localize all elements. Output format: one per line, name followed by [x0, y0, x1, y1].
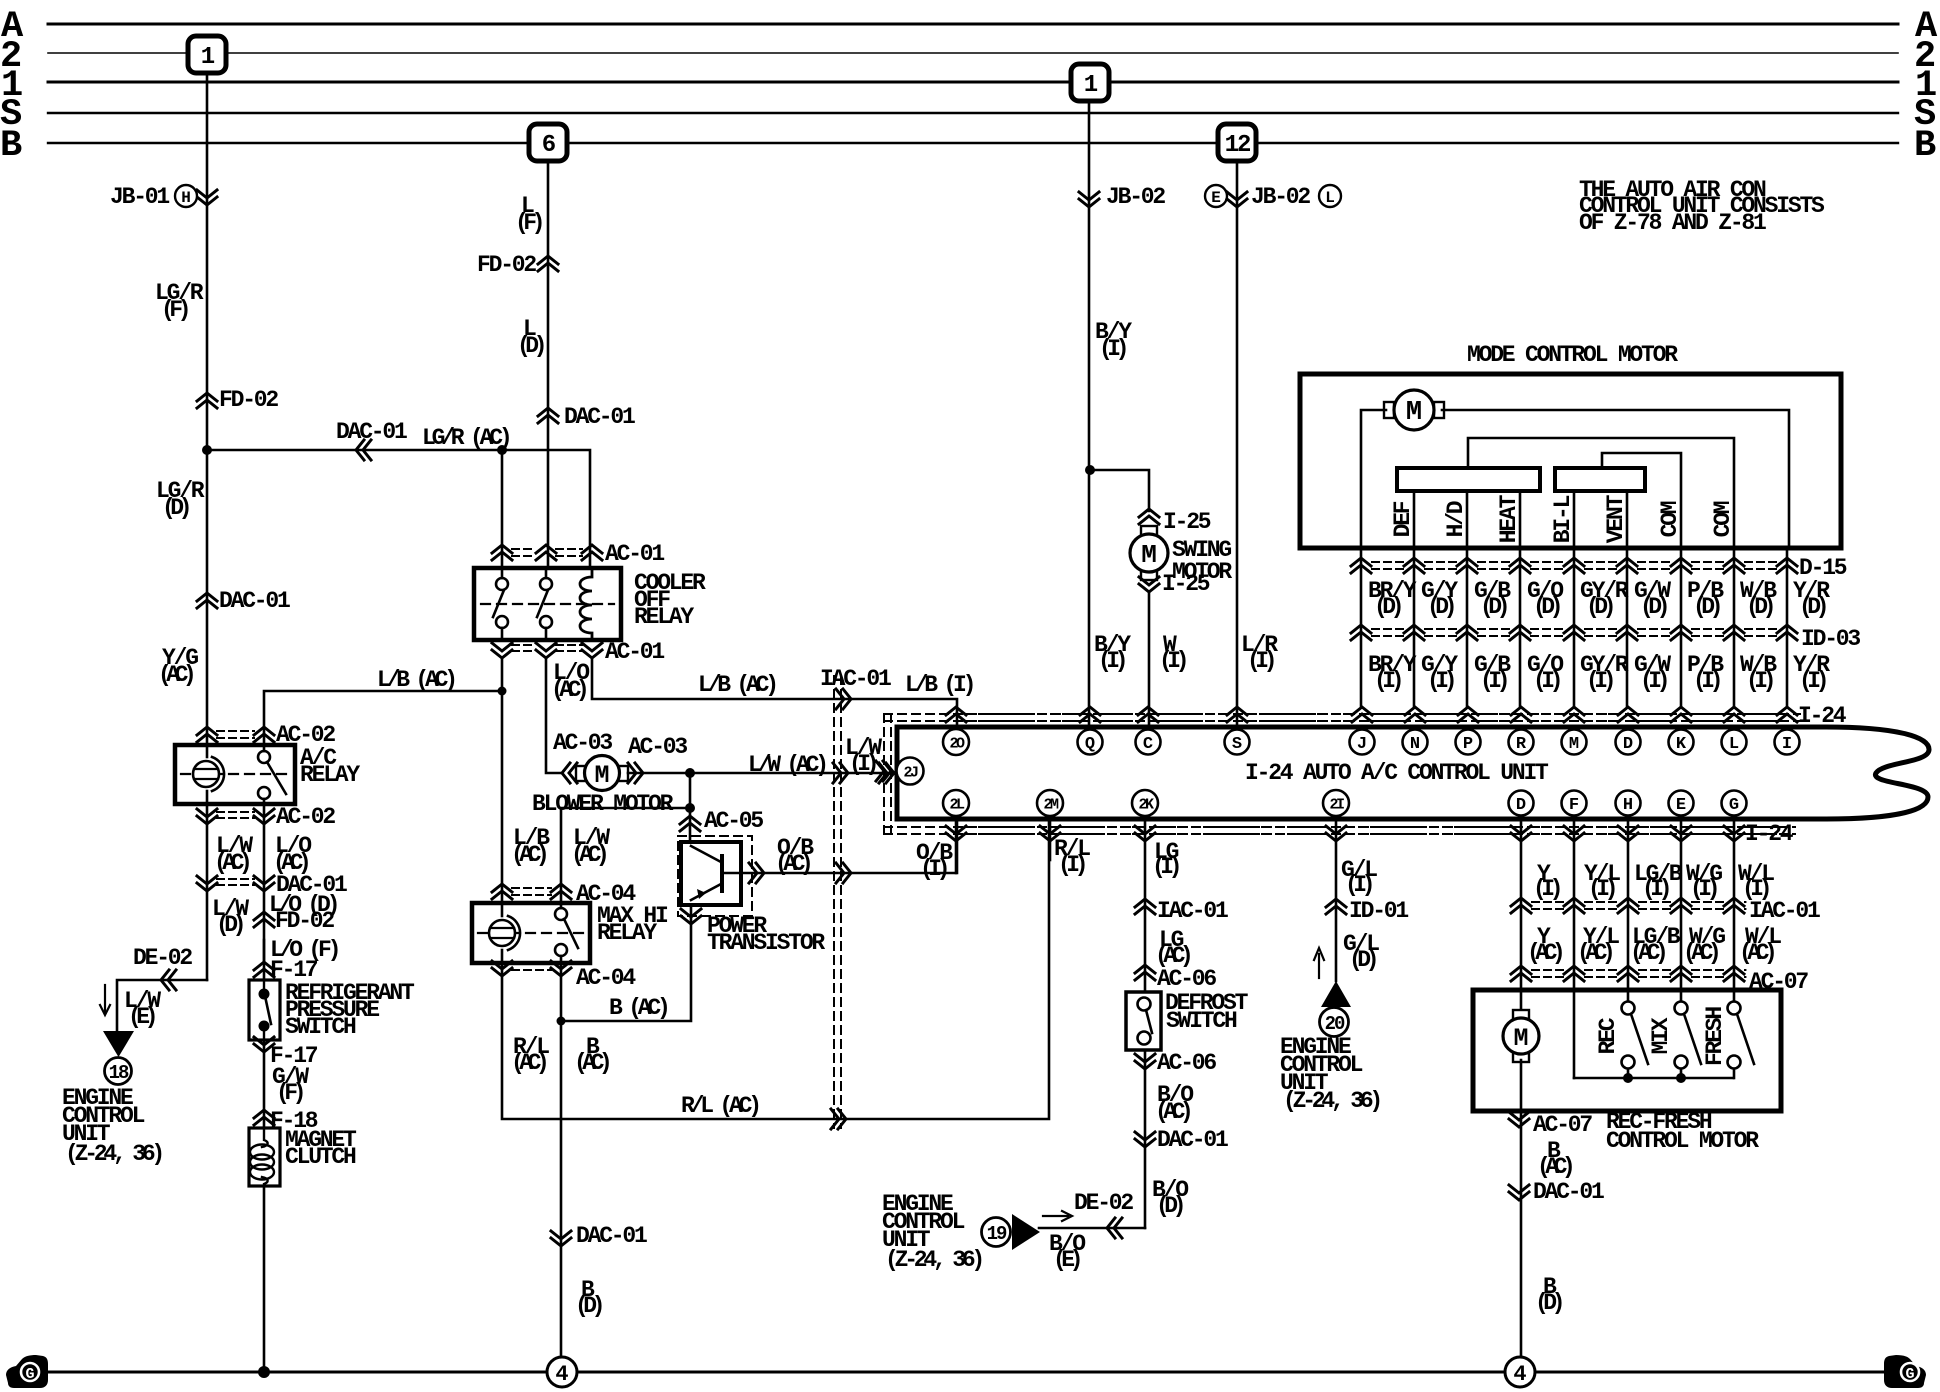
- harness IAC-01 dashed boundary: [834, 676, 841, 1128]
- relay cooler off contact 1: [493, 568, 508, 640]
- svg-text:(D): (D): [575, 1293, 602, 1319]
- svg-text:19: 19: [987, 1223, 1007, 1245]
- label BI-L: [1550, 495, 1576, 543]
- wire O/B transistor to pin 2L: [741, 820, 957, 873]
- svg-text:DE-02: DE-02: [133, 945, 192, 971]
- node S label right: [1914, 94, 1936, 136]
- svg-text:AC-04: AC-04: [576, 965, 636, 991]
- switch REC: [1622, 1002, 1649, 1079]
- svg-text:LG/R (AC): LG/R (AC): [422, 425, 509, 451]
- svg-text:(AC): (AC): [511, 1050, 546, 1076]
- svg-text:(I): (I): [1099, 336, 1126, 362]
- wire bus 1 (left segment): [48, 81, 1071, 84]
- connector DAC-01 chevron on horizontal wire: [356, 440, 371, 460]
- wire W/G pin E down: [1680, 820, 1683, 1001]
- node 1 label right: [1915, 65, 1936, 107]
- svg-text:(I): (I): [849, 751, 876, 777]
- unit rec-fresh control motor box: [1473, 990, 1781, 1111]
- label LG (I): [1152, 839, 1179, 880]
- label VENT: [1603, 494, 1629, 543]
- wire L/W from A/C relay coil down: [206, 804, 209, 980]
- connector AC-06 chevron below defrost: [1135, 1054, 1155, 1069]
- label MIX: [1648, 1017, 1674, 1054]
- svg-text:(AC): (AC): [571, 842, 606, 868]
- node arrow from ECU pin 19: [1012, 1214, 1040, 1250]
- svg-text:AC-06: AC-06: [1157, 966, 1216, 992]
- svg-text:H: H: [1623, 796, 1633, 815]
- svg-text:COM: COM: [1710, 501, 1736, 537]
- junction dot rec bus 2: [1676, 1073, 1686, 1083]
- svg-text:(E): (E): [128, 1004, 155, 1030]
- svg-text:(F): (F): [161, 297, 188, 323]
- node circled 18: [105, 1058, 132, 1085]
- svg-text:L: L: [1729, 735, 1739, 754]
- svg-text:(I): (I): [1058, 852, 1085, 878]
- harness I-24 dashed boundary top: [884, 714, 1800, 721]
- svg-text:F: F: [1569, 796, 1579, 815]
- svg-text:DAC-01: DAC-01: [576, 1223, 647, 1249]
- svg-text:E: E: [1211, 189, 1221, 207]
- junction dot at 502,450: [497, 445, 507, 455]
- label ID-01: [1349, 898, 1408, 924]
- svg-text:BI-L: BI-L: [1550, 495, 1576, 543]
- wire BI-L: [1573, 491, 1576, 548]
- label ENGINE CONTROL UNIT right: [1280, 1034, 1379, 1114]
- connector F-17 chevron below: [254, 1037, 274, 1052]
- svg-text:MOTOR: MOTOR: [1172, 559, 1232, 585]
- wire rec-fresh common bus: [1574, 1077, 1733, 1080]
- label LG (AC): [1155, 927, 1190, 969]
- svg-text:IAC-01: IAC-01: [820, 666, 891, 692]
- wire L/R from connector 12 down to control unit pin S: [1236, 161, 1239, 727]
- wire bus S: [48, 112, 1898, 114]
- svg-text:(AC): (AC): [775, 851, 810, 877]
- connector chevron L/W at unit: [879, 763, 894, 783]
- connector DAC-01 dashes: [217, 879, 254, 885]
- svg-text:J: J: [1357, 735, 1367, 754]
- connector circle E: [1205, 185, 1227, 207]
- connector 6 on bus B: [529, 124, 567, 161]
- connector AC-04 chevrons below max hi relay: [492, 961, 571, 976]
- connector AC-01 chevrons below cooler off relay: [492, 643, 602, 658]
- label rec-fresh wires (I): [1533, 861, 1774, 902]
- connector DAC-01 chevron 2K wire: [1135, 1132, 1155, 1147]
- svg-text:(I): (I): [1588, 876, 1615, 902]
- svg-text:DAC-01: DAC-01: [564, 404, 635, 430]
- label L (F): [515, 193, 542, 236]
- label ENGINE CONTROL UNIT left: [62, 1085, 161, 1167]
- pin R: [1509, 730, 1534, 755]
- pin 2J: [897, 758, 924, 785]
- connector I-24 chevrons top row: [946, 707, 1797, 722]
- svg-text:COM: COM: [1657, 501, 1683, 537]
- label B/O (E): [1049, 1231, 1085, 1273]
- svg-text:(E): (E): [1053, 1247, 1080, 1273]
- label DAC-01 2K wire: [1157, 1127, 1228, 1153]
- pin D top: [1616, 730, 1641, 755]
- label G/L (I): [1341, 857, 1377, 898]
- relay max hi coil: [489, 903, 520, 963]
- svg-text:(D): (D): [1586, 594, 1613, 620]
- wire L/W branch to max hi relay contact: [561, 808, 690, 903]
- connector AC-02 chevrons below A/C relay: [197, 809, 274, 824]
- wire VENT: [1626, 491, 1629, 548]
- wire mode motor left lead: [1361, 410, 1386, 548]
- connector ID-03 chevron row: [1351, 625, 1797, 640]
- svg-text:FD-02: FD-02: [275, 908, 334, 934]
- pin N: [1403, 730, 1428, 755]
- wire B/Y branch to swing motor: [1090, 470, 1149, 511]
- svg-text:E: E: [1676, 796, 1686, 815]
- label L/O (F): [270, 937, 338, 963]
- wire Y/L pin F down: [1573, 820, 1576, 1078]
- svg-text:N: N: [1410, 735, 1420, 754]
- label L/O (AC) col: [273, 833, 311, 876]
- svg-text:AC-06: AC-06: [1157, 1050, 1216, 1076]
- label I-25 bottom: [1162, 571, 1210, 597]
- node 1 label left: [1, 65, 22, 107]
- svg-text:(D): (D): [1349, 947, 1376, 973]
- svg-text:(D): (D): [517, 333, 544, 359]
- svg-text:20: 20: [1325, 1013, 1345, 1035]
- label F-18: [270, 1108, 318, 1134]
- svg-text:(F): (F): [515, 210, 542, 236]
- pin E: [1669, 791, 1694, 816]
- connector circle L: [1319, 185, 1341, 207]
- svg-text:I: I: [1782, 735, 1792, 754]
- svg-text:(I): (I): [1427, 668, 1454, 694]
- relay A/C contact: [258, 745, 286, 804]
- label FD-02 left: [219, 387, 278, 413]
- label AC-07 right: [1749, 969, 1808, 995]
- connector DAC-01 chevron B wire: [551, 1231, 571, 1246]
- svg-text:DEF: DEF: [1390, 501, 1416, 537]
- label AC-02 bottom: [276, 804, 335, 830]
- svg-text:JB-01: JB-01: [110, 184, 169, 210]
- svg-text:L/B (AC): L/B (AC): [698, 672, 775, 698]
- label L/W (E): [124, 988, 161, 1030]
- svg-text:(I): (I): [1690, 876, 1717, 902]
- wire L from connector 6 down to cooler off relay: [547, 161, 550, 568]
- pin 2I: [1323, 790, 1349, 816]
- wire Y pin D down: [1520, 820, 1523, 1012]
- svg-text:MIX: MIX: [1648, 1017, 1674, 1054]
- connector 12 on bus B: [1218, 124, 1256, 161]
- label G/L (D): [1343, 931, 1379, 973]
- svg-text:1: 1: [1084, 72, 1098, 99]
- svg-text:B: B: [1914, 125, 1936, 167]
- svg-text:(I): (I): [1098, 648, 1125, 674]
- motor blower motor: [576, 756, 628, 791]
- svg-text:12: 12: [1225, 132, 1250, 159]
- pin 2M: [1037, 790, 1063, 816]
- connector AC-02 chevrons above A/C relay: [197, 727, 274, 742]
- label SWING MOTOR: [1172, 537, 1232, 585]
- label arrow up: [1314, 948, 1324, 978]
- label FD-02 col: [275, 908, 334, 934]
- connector AC-05 chevron: [680, 816, 700, 831]
- connector AC-01 dashes below: [512, 645, 582, 651]
- connector FD-02 chevron col: [254, 912, 274, 927]
- motor mode motor M: [1384, 390, 1444, 430]
- label AC-01 bottom: [605, 639, 664, 665]
- svg-text:MODE CONTROL MOTOR: MODE CONTROL MOTOR: [1467, 342, 1678, 368]
- connector I-25 chevron below: [1139, 577, 1159, 592]
- label L/W (AC) blower: [748, 752, 825, 778]
- connector AC-07 chevron below box: [1509, 1112, 1529, 1127]
- ground symbol left: [6, 1355, 48, 1388]
- svg-text:DAC-01: DAC-01: [1533, 1179, 1604, 1205]
- label HEAT: [1496, 494, 1522, 543]
- label LG/R (AC) horizontal: [422, 425, 509, 451]
- note auto air con control unit: [1579, 177, 1825, 236]
- pin J: [1350, 730, 1375, 755]
- wire L/W down from junction to power transistor: [689, 773, 692, 842]
- svg-text:(AC): (AC): [1537, 1154, 1572, 1180]
- wire DEF: [1413, 491, 1416, 548]
- svg-text:(D): (D): [1535, 1290, 1562, 1316]
- wire DE-02 to engine control unit: [117, 980, 207, 1031]
- pin G: [1722, 791, 1747, 816]
- ground symbol right: [1884, 1355, 1926, 1388]
- connector I-24 chevrons bottom row: [946, 826, 1744, 841]
- label mode wires (I): [1368, 652, 1830, 694]
- unit I-24 auto A/C control unit box: [897, 727, 1929, 819]
- svg-text:DE-02: DE-02: [1074, 1190, 1133, 1216]
- svg-text:FD-02: FD-02: [477, 252, 536, 278]
- label R/L (AC) col: [511, 1034, 549, 1076]
- label BLOWER MOTOR: [532, 791, 674, 817]
- label ENGINE CONTROL UNIT mid: [882, 1191, 981, 1273]
- svg-text:G: G: [25, 1366, 34, 1383]
- label W (I): [1159, 632, 1186, 674]
- wire B/Y from connector 1 down to control unit pin Q: [1088, 100, 1091, 727]
- svg-text:L/B (AC): L/B (AC): [377, 667, 454, 693]
- svg-text:HEAT: HEAT: [1496, 494, 1522, 543]
- junction dot L/B: [498, 687, 507, 696]
- label I-25 top: [1163, 509, 1211, 535]
- wire G/L pin 2I down: [1335, 820, 1338, 981]
- svg-text:AC-03: AC-03: [553, 730, 612, 756]
- label JB-02 L: [1251, 184, 1310, 210]
- wire W/L pin G down: [1733, 820, 1736, 1001]
- connector DAC-01 chevron rec: [1509, 1185, 1529, 1200]
- node circled 4 left: [547, 1357, 577, 1387]
- svg-text:G: G: [1905, 1366, 1914, 1383]
- svg-text:H: H: [181, 189, 191, 207]
- label DAC-01 B wire: [576, 1223, 647, 1249]
- svg-text:(AC): (AC): [1630, 940, 1665, 966]
- wire B rec-fresh motor to ground: [1520, 1060, 1523, 1357]
- label B/O (D): [1152, 1177, 1188, 1219]
- wire H/D: [1466, 491, 1469, 548]
- connector FD-02 chevron left: [197, 393, 217, 408]
- wire mode harness segment D: [1361, 548, 1787, 707]
- connector F-17 chevron above: [254, 962, 274, 977]
- pin C: [1136, 730, 1161, 755]
- pin K: [1669, 730, 1694, 755]
- relay cooler off coil: [580, 568, 592, 640]
- wire mode harness segment I: [0, 0, 1, 1]
- pin D bottom: [1509, 791, 1534, 816]
- label COM 2: [1710, 501, 1736, 537]
- svg-text:(I): (I): [1533, 668, 1560, 694]
- clutch magnet clutch: [249, 1128, 280, 1186]
- transistor dashed box: [678, 836, 752, 916]
- connector I-25 chevron above: [1139, 509, 1159, 524]
- svg-text:D: D: [1623, 735, 1633, 754]
- svg-text:(AC): (AC): [1155, 1099, 1190, 1125]
- svg-text:(I): (I): [1640, 668, 1667, 694]
- label R/L (I): [1054, 836, 1090, 878]
- svg-text:JB-02: JB-02: [1251, 184, 1310, 210]
- svg-text:(AC): (AC): [1577, 940, 1612, 966]
- label B/Y (I) upper: [1095, 319, 1132, 362]
- pin Q: [1078, 730, 1103, 755]
- label IAC-01 2K: [1157, 898, 1228, 924]
- node arrow to ECU pin 20: [1321, 981, 1351, 1007]
- connector AC-04 chevrons above max hi relay: [492, 884, 571, 899]
- svg-text:R: R: [1516, 735, 1527, 754]
- connector AC-03 chevron left of blower motor: [562, 763, 577, 783]
- svg-text:(AC): (AC): [511, 842, 546, 868]
- connector DAC-01 chevron left: [197, 593, 217, 608]
- svg-text:SWITCH: SWITCH: [1166, 1008, 1237, 1034]
- svg-text:Q: Q: [1085, 735, 1095, 754]
- node circled 20: [1320, 1008, 1349, 1037]
- svg-text:(D): (D): [1480, 594, 1507, 620]
- label D-15: [1799, 555, 1847, 581]
- label mode wires (D): [1368, 578, 1830, 620]
- wire bar2 common feed: [1602, 453, 1681, 548]
- connector circle H: [175, 185, 197, 207]
- node A label right: [1915, 6, 1938, 48]
- label COM 1: [1657, 501, 1683, 537]
- svg-text:(AC): (AC): [1683, 940, 1718, 966]
- wire L/W blower motor to pin 2J: [628, 772, 897, 775]
- label L/W (I): [845, 735, 882, 777]
- label REFRIGERANT PRESSURE SWITCH: [285, 980, 415, 1040]
- svg-text:(AC): (AC): [574, 1050, 609, 1076]
- svg-text:DAC-01: DAC-01: [1157, 1127, 1228, 1153]
- label L (D): [517, 316, 544, 359]
- svg-text:DAC-01: DAC-01: [336, 419, 407, 445]
- label MODE CONTROL MOTOR: [1467, 342, 1678, 368]
- svg-text:AC-02: AC-02: [276, 804, 335, 830]
- wire LG pin 2K down: [1144, 820, 1147, 1228]
- svg-text:(I): (I): [1533, 876, 1560, 902]
- pin M: [1562, 730, 1587, 755]
- label REC-FRESH CONTROL MOTOR: [1606, 1109, 1759, 1154]
- label MAX HI RELAY: [597, 903, 668, 946]
- svg-text:M: M: [1569, 735, 1579, 754]
- label arrow right: [1043, 1211, 1072, 1221]
- junction dot rec bus 1: [1623, 1073, 1633, 1083]
- svg-text:(F): (F): [276, 1080, 303, 1106]
- label REC: [1595, 1017, 1621, 1054]
- switch refrigerant pressure switch: [249, 980, 280, 1040]
- node arrow to ECU pin 18: [103, 1031, 134, 1057]
- svg-text:AC-01: AC-01: [605, 639, 664, 665]
- svg-text:6: 6: [542, 132, 556, 159]
- svg-text:R/L (AC): R/L (AC): [681, 1093, 758, 1119]
- label L/O (D): [269, 892, 337, 918]
- connector ID-03 dashes: [1372, 629, 1776, 636]
- label O/B (AC): [775, 835, 814, 877]
- svg-text:(AC): (AC): [1527, 940, 1562, 966]
- wire B branch to power transistor: [561, 905, 691, 1021]
- connector chevron at pin 2J: [876, 761, 891, 781]
- wire W swing motor to pin C: [1148, 592, 1151, 727]
- unit mode control motor box: [1300, 374, 1841, 548]
- label B (D) left: [575, 1277, 602, 1319]
- relay cooler off relay box: [474, 568, 621, 640]
- svg-text:M: M: [1406, 398, 1422, 428]
- svg-text:4: 4: [1513, 1362, 1526, 1387]
- svg-text:(D): (D): [1533, 594, 1560, 620]
- wire bus 1 (right segment): [1107, 81, 1898, 84]
- connector DAC-01 chevrons below A/C relay: [197, 876, 274, 891]
- connector IAC-01 chevron row 2: [1511, 898, 1744, 913]
- connector DAC-01 chevron mid: [538, 408, 558, 423]
- junction dot L/W lower: [685, 803, 695, 813]
- svg-text:(Z-24, 36): (Z-24, 36): [1283, 1088, 1379, 1114]
- label JB-02 E: [1106, 184, 1165, 210]
- svg-text:OF Z-78 AND Z-81: OF Z-78 AND Z-81: [1579, 210, 1766, 236]
- connector IAC-01 dashes row 2: [1532, 902, 1745, 909]
- svg-text:(Z-24, 36): (Z-24, 36): [885, 1247, 981, 1273]
- svg-text:2I: 2I: [1329, 796, 1344, 813]
- svg-text:REC: REC: [1595, 1017, 1621, 1054]
- label AC-03 right: [628, 734, 687, 760]
- junction dot ground magnet clutch: [258, 1366, 270, 1378]
- label DEF: [1390, 501, 1416, 537]
- junction dot at 207,450: [202, 445, 212, 455]
- label L/R (I): [1241, 632, 1278, 674]
- svg-text:(D): (D): [1640, 594, 1667, 620]
- wire bus B (right segment): [1256, 142, 1898, 144]
- connector AC-07 dashes row: [1532, 970, 1745, 977]
- wire B from max hi contact to ground: [560, 963, 563, 1357]
- label JB-01: [110, 184, 169, 210]
- label R/L (AC) horizontal: [681, 1093, 758, 1119]
- wire L/B coil to control unit pin 2O: [592, 658, 957, 727]
- label Y/G (AC): [158, 645, 198, 688]
- label I-24 AUTO A/C CONTROL UNIT: [1245, 760, 1549, 786]
- connector D-15 chevron row: [1351, 558, 1797, 573]
- label DE-02 left: [133, 945, 192, 971]
- svg-text:CLUTCH: CLUTCH: [285, 1144, 356, 1170]
- connector JB-02 (L) chevron: [1227, 192, 1247, 207]
- wire bus A: [48, 23, 1898, 26]
- label rec-fresh wires (AC): [1527, 924, 1781, 966]
- wire L/B branch left to A/C relay: [264, 691, 502, 751]
- pin I: [1775, 730, 1800, 755]
- connector FD-02 chevron right: [538, 256, 558, 271]
- connector AC-01 dashes above: [512, 549, 582, 556]
- svg-text:CONTROL MOTOR: CONTROL MOTOR: [1606, 1128, 1759, 1154]
- svg-text:(I): (I): [1586, 668, 1613, 694]
- pin F: [1562, 791, 1587, 816]
- connector D-15 dashes: [1372, 562, 1776, 569]
- svg-text:(I): (I): [1345, 872, 1372, 898]
- svg-text:H/D: H/D: [1443, 501, 1469, 537]
- connector chevron O/B at harness: [836, 863, 851, 883]
- label LG/R (F): [155, 280, 204, 323]
- pin 2K: [1132, 790, 1158, 816]
- connector I-24 dashes bottom: [967, 827, 1795, 834]
- connector JB-01 (H) chevron: [197, 190, 217, 205]
